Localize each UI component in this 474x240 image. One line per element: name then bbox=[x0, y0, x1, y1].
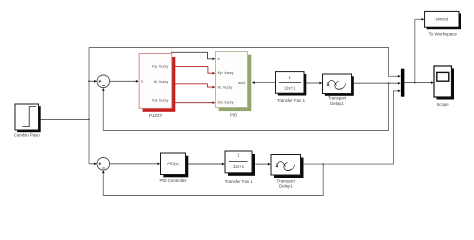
svg-text:11s+1: 11s+1 bbox=[233, 164, 245, 169]
svg-text:Delay1: Delay1 bbox=[330, 101, 344, 106]
svg-text:Kd. fuzzy: Kd. fuzzy bbox=[218, 99, 234, 104]
svg-text:To Workspace: To Workspace bbox=[429, 32, 458, 37]
svg-text:Transfer Fan 1: Transfer Fan 1 bbox=[225, 179, 254, 184]
svg-text:Kp. fuzzy: Kp. fuzzy bbox=[218, 70, 234, 75]
svg-text:11s+1: 11s+1 bbox=[284, 85, 296, 90]
svg-text:Ki. fuzzy: Ki. fuzzy bbox=[218, 84, 233, 89]
svg-text:PID: PID bbox=[230, 113, 237, 118]
svg-text:e: e bbox=[218, 56, 220, 61]
svg-text:Transfer Fan 1: Transfer Fan 1 bbox=[277, 98, 306, 103]
svg-text:FUZZY: FUZZY bbox=[149, 113, 163, 118]
svg-text:out1: out1 bbox=[238, 80, 246, 85]
svg-text:Cambio Paso: Cambio Paso bbox=[14, 132, 40, 137]
svg-text:Ki. fuzzy: Ki. fuzzy bbox=[154, 79, 169, 84]
svg-text:Kd. fuzzy: Kd. fuzzy bbox=[152, 97, 168, 102]
svg-text:PID Controller: PID Controller bbox=[160, 178, 188, 183]
svg-text:Kp. fuzzy: Kp. fuzzy bbox=[152, 64, 168, 69]
svg-text:Scope: Scope bbox=[437, 102, 450, 107]
svg-text:simout: simout bbox=[436, 17, 449, 22]
svg-text:PID(s): PID(s) bbox=[167, 161, 179, 166]
svg-text:e: e bbox=[141, 79, 143, 84]
svg-text:Delay1: Delay1 bbox=[279, 184, 293, 189]
